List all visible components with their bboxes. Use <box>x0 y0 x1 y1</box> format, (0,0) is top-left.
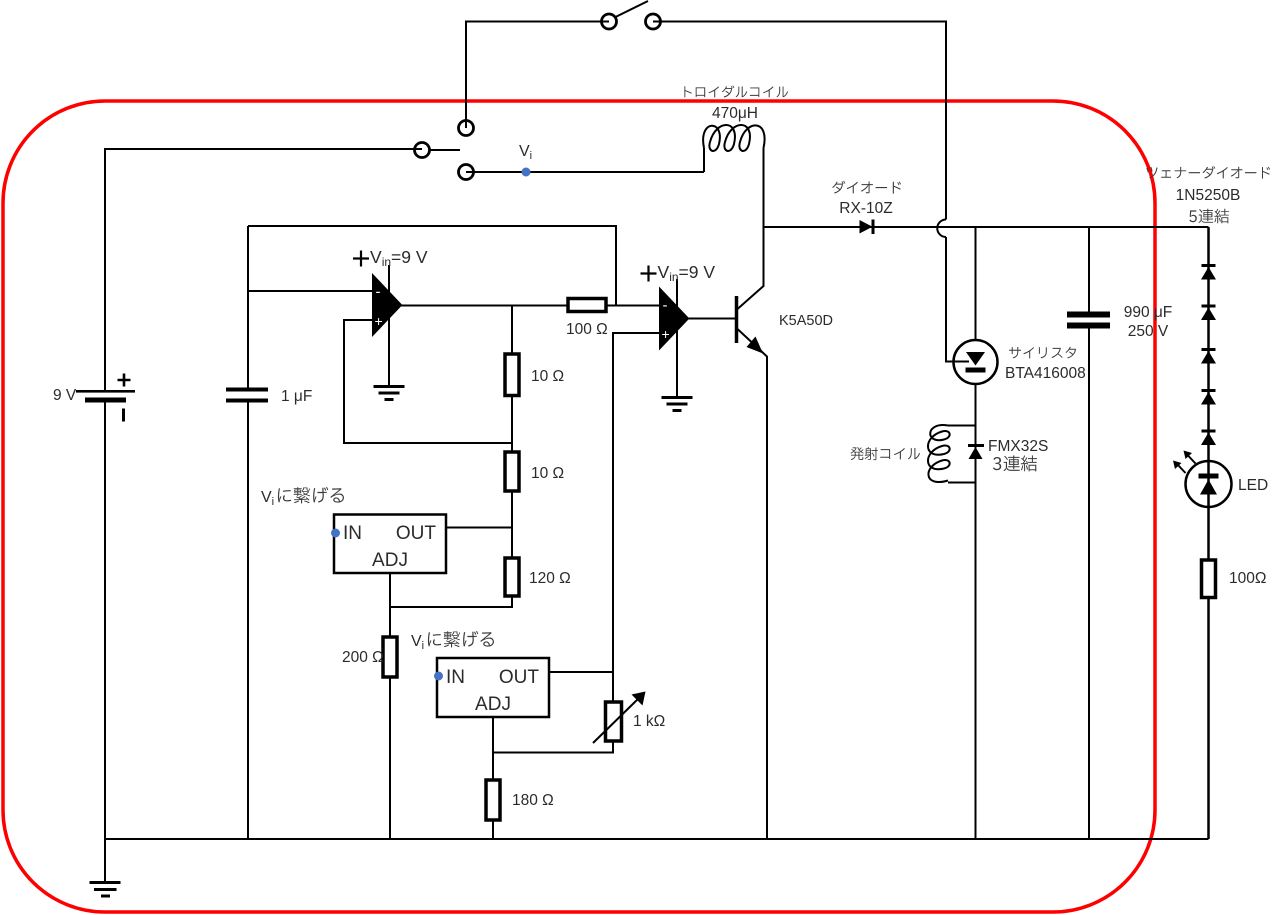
op-amp U2 ground pin <box>676 324 678 396</box>
LED D3 circle <box>1186 461 1232 507</box>
resistor R3 10ohm <box>505 452 519 491</box>
svg-text:Vi: Vi <box>411 633 424 652</box>
battery V1 9V top wire <box>105 149 422 390</box>
op-amp U1 minus input wire <box>248 290 373 292</box>
switch S1 (SPDT) pole circle <box>415 143 430 158</box>
label 3-renketsu <box>993 455 1037 471</box>
rail from cap node to opamp2 input <box>248 226 616 306</box>
svg-text:+: + <box>375 313 383 329</box>
wire between 10ohm resistors <box>511 396 513 453</box>
inductor L1 coil loops <box>703 125 764 151</box>
svg-text:200 Ω: 200 Ω <box>342 649 384 666</box>
op-amp U1 plus input wire <box>344 320 512 443</box>
svg-text:LED: LED <box>1238 477 1268 494</box>
LED D3 bar and triangle <box>1199 474 1219 495</box>
regulator U3 IN dot <box>331 529 340 538</box>
wire reg1 OUT <box>446 527 512 529</box>
svg-text:OUT: OUT <box>396 523 437 544</box>
op-amp U1 ground pin <box>388 310 390 385</box>
svg-text:1 μF: 1 μF <box>281 388 312 405</box>
wire 100ohm to opamp2 <box>606 305 660 307</box>
wire thyristor cathode down <box>975 384 977 839</box>
battery V1 plates <box>76 390 135 403</box>
capacitor C1 branch wire <box>247 226 249 839</box>
svg-text:BTA416008: BTA416008 <box>1005 365 1086 382</box>
potentiometer R6 1kohm box <box>606 702 622 741</box>
wire 10ohm to OUT junction <box>511 491 513 558</box>
switch S1 lever <box>430 149 461 151</box>
regulator U4 ADJ pin <box>492 717 494 780</box>
op-amp U2 plus input wire <box>613 333 660 672</box>
op-amp U1 triangle <box>373 276 401 335</box>
diode D2 FMX32S <box>968 444 984 459</box>
svg-text:IN: IN <box>343 523 362 544</box>
switch S2 (on/off) left circle <box>602 14 617 29</box>
svg-text:100Ω: 100Ω <box>1229 570 1266 587</box>
capacitor C2 990uF plates <box>1067 312 1110 329</box>
svg-text:-: - <box>663 297 668 314</box>
wire 180ohm to bus <box>492 820 494 839</box>
switch S1 throw circle upper <box>459 121 474 136</box>
zener diode DZ2 <box>1201 305 1216 321</box>
zener diode DZ5 <box>1201 430 1216 446</box>
switch S2 right circle <box>646 14 661 29</box>
svg-text:120 Ω: 120 Ω <box>529 570 571 587</box>
label zener diode <box>1146 166 1270 179</box>
thyristor Q2 BTA416008 circle <box>954 340 998 384</box>
regulator U4 box <box>437 658 549 717</box>
svg-text:250 V: 250 V <box>1128 323 1169 340</box>
svg-text:1N5250B: 1N5250B <box>1176 187 1241 204</box>
svg-text:1 kΩ: 1 kΩ <box>633 713 665 730</box>
svg-text:Vin=9 V: Vin=9 V <box>370 247 428 269</box>
switch S1 throw circle lower <box>459 165 474 180</box>
zener chain wire <box>1207 227 1210 839</box>
label launch coil <box>851 447 921 460</box>
svg-text:IN: IN <box>446 667 465 688</box>
wire top to right corner <box>653 22 946 220</box>
wire throw1 up to top <box>466 22 609 129</box>
svg-text:K5A50D: K5A50D <box>779 313 833 329</box>
wire ADJ to pot bottom <box>493 741 613 753</box>
regulator U3 ADJ pin <box>389 573 391 637</box>
node Vi wire <box>466 171 704 173</box>
resistor R5 200ohm <box>383 637 397 677</box>
bottom bus wire <box>105 838 1209 840</box>
wire capacitor C2 branch <box>1088 227 1090 839</box>
transistor Q1 emitter <box>738 329 768 839</box>
resistor R8 180ohm <box>486 780 500 820</box>
node Vi dot <box>522 168 531 177</box>
ground (U1) <box>374 387 405 400</box>
label diode <box>832 181 901 194</box>
svg-text:180 Ω: 180 Ω <box>512 792 554 809</box>
svg-text:Vin=9 V: Vin=9 V <box>658 262 716 284</box>
battery minus sign <box>122 409 125 422</box>
wire 120ohm to ADJ wire <box>390 596 512 607</box>
svg-text:990 μF: 990 μF <box>1124 304 1173 321</box>
regulator U4 IN dot <box>434 672 443 681</box>
svg-text:10 Ω: 10 Ω <box>531 368 564 385</box>
transistor Q1 base wire <box>688 318 735 320</box>
wire 200ohm to bus <box>389 677 391 839</box>
zener diode DZ4 <box>1201 389 1216 405</box>
svg-text:OUT: OUT <box>499 667 540 688</box>
battery V1 9V bottom wire <box>104 403 106 882</box>
op-amp U1 output wire <box>401 305 568 307</box>
inductor L1 right stub <box>763 148 765 227</box>
svg-text:470μH: 470μH <box>712 105 758 122</box>
op-amp U2 triangle <box>660 289 688 348</box>
inductor L2 launch coil top stub <box>948 425 976 427</box>
op-amp U1 power pin <box>388 265 390 300</box>
inductor L2 bottom stub <box>948 482 976 484</box>
svg-text:10 Ω: 10 Ω <box>531 465 564 482</box>
thyristor Q2 triangle and bar <box>966 352 986 373</box>
regulator U4 OUT wire <box>549 671 613 673</box>
transistor Q1 emitter arrow <box>747 337 764 354</box>
label thyristor <box>1009 347 1076 359</box>
resistor R7 100ohm (right) <box>1202 560 1216 598</box>
switch S2 lever <box>615 1 649 18</box>
zener diode DZ1 <box>1201 264 1216 280</box>
svg-text:Vi: Vi <box>519 143 532 162</box>
LED arrows <box>1178 456 1196 474</box>
inductor L2 coil loops <box>928 425 950 482</box>
label toroidal coil <box>684 86 788 98</box>
svg-text:ADJ: ADJ <box>475 694 511 715</box>
transistor Q1 collector <box>738 227 764 309</box>
resistor R1 100ohm <box>568 299 606 312</box>
resistor R4 120ohm <box>505 558 519 596</box>
potentiometer R6 arrow <box>593 697 640 743</box>
svg-text:ADJ: ADJ <box>372 550 408 571</box>
ground (battery, bottom left) <box>90 883 121 897</box>
transistor Q1 base bar <box>735 296 739 343</box>
resistor R2 10ohm <box>505 354 519 396</box>
svg-text:+: + <box>662 326 670 342</box>
svg-text:FMX32S: FMX32S <box>988 438 1048 455</box>
red boundary frame <box>3 101 1155 912</box>
regulator U4 labels <box>446 667 539 715</box>
wire 10ohm chain from output junction <box>511 306 513 355</box>
battery plus sign <box>118 374 131 387</box>
op-amp U2 power pin <box>676 279 678 314</box>
wire pot top <box>612 672 614 702</box>
inductor L1 toroidal coil left stub <box>703 148 705 172</box>
capacitor C1 1uF plates <box>226 388 268 403</box>
wire down to thyristor gate <box>946 237 969 362</box>
wire top rail right (collector to zener corner) <box>764 226 1209 228</box>
regulator U3 labels <box>343 523 436 571</box>
label 5-renketsu <box>1189 209 1229 224</box>
label +Vin=9V (U2) <box>641 266 657 282</box>
label +Vin=9V (U1) <box>353 251 369 267</box>
svg-text:RX-10Z: RX-10Z <box>839 200 892 217</box>
svg-text:100 Ω: 100 Ω <box>566 321 608 338</box>
zener diode DZ3 <box>1201 348 1216 364</box>
regulator U3 box <box>334 515 446 574</box>
svg-text:Vi: Vi <box>261 489 274 508</box>
wire thyristor branch anode <box>975 227 977 340</box>
wire hop over bus <box>937 220 946 238</box>
ground (U2) <box>662 398 693 411</box>
svg-text:-: - <box>376 284 381 301</box>
svg-text:9 V: 9 V <box>53 387 77 404</box>
diode D1 RX-10Z <box>860 220 875 235</box>
